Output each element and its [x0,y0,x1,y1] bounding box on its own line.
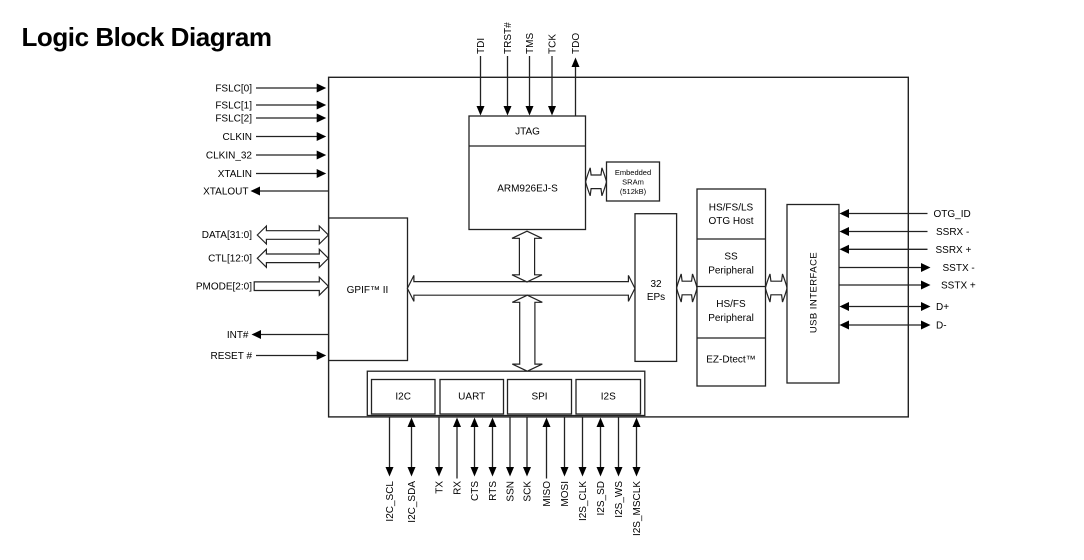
svg-text:I2S_WS: I2S_WS [614,481,625,518]
svg-text:HS/FS: HS/FS [716,299,746,310]
bus arrow GPIF to 32 EPs (horizontal) [407,275,635,301]
svg-text:I2S: I2S [601,392,616,403]
svg-text:Logic Block Diagram: Logic Block Diagram [22,22,272,52]
pin RESET # (left input) [211,351,327,362]
bus arrow USB blocks to USB interface [766,274,788,302]
bus arrow central bus to serial peripherals (vertical) [512,295,542,371]
svg-text:(512kB): (512kB) [620,187,647,196]
svg-text:XTALOUT: XTALOUT [203,187,248,198]
svg-text:SSTX -: SSTX - [943,263,975,274]
svg-text:DATA[31:0]: DATA[31:0] [202,230,252,241]
svg-text:FSLC[0]: FSLC[0] [215,84,252,95]
pin D- (right) [840,321,947,332]
pin I2C_SCL (bottom) [385,417,396,522]
svg-text:FSLC[2]: FSLC[2] [215,114,252,125]
svg-text:JTAG: JTAG [515,127,540,138]
svg-text:RTS: RTS [488,481,499,501]
block serial peripherals container [367,371,645,415]
svg-text:SSN: SSN [506,481,517,502]
pin TDI (top) [476,38,487,116]
pin TX (bottom) [435,417,446,494]
bus arrow ARM to SRAM [586,168,607,196]
svg-text:OTG Host: OTG Host [708,216,753,227]
block Embedded SRAM (512kB) [607,162,660,201]
svg-text:D+: D+ [936,302,949,313]
bus DATA[31:0] (bidirectional) [202,226,329,244]
block 32 EPs [635,214,677,362]
svg-text:SSTX +: SSTX + [941,281,976,292]
pin MISO (bottom) [542,418,553,507]
svg-text:XTALIN: XTALIN [218,169,252,180]
svg-text:D-: D- [936,321,947,332]
svg-text:RX: RX [453,481,464,495]
svg-text:I2C: I2C [395,392,411,403]
svg-text:CLKIN_32: CLKIN_32 [206,151,253,162]
svg-text:SSRX +: SSRX + [936,245,972,256]
pin CLKIN_32 (left input) [206,151,326,162]
svg-text:EZ-Dtect™: EZ-Dtect™ [706,355,755,366]
svg-text:CTS: CTS [470,481,481,501]
pin SSTX + (right) [839,281,976,292]
pin INT# (left output) [227,330,329,341]
pin FSLC[2] (left input) [215,114,326,125]
svg-text:FSLC[1]: FSLC[1] [215,101,252,112]
svg-text:RESET #: RESET # [211,351,253,362]
svg-text:HS/FS/LS: HS/FS/LS [709,203,754,214]
svg-text:UART: UART [458,392,485,403]
svg-text:TDI: TDI [476,38,487,54]
svg-text:I2C_SCL: I2C_SCL [385,481,396,522]
svg-text:SS: SS [724,252,738,263]
pin SSRX + (right) [840,245,972,256]
pin I2S_WS (bottom) [614,417,625,518]
svg-text:SRAm: SRAm [622,178,644,187]
pin I2S_SD (bottom) [596,418,607,516]
block USB function stack (OTG Host / SS Peripheral / HS-FS Peripheral / EZ-Dtect) [697,189,766,386]
svg-text:TMS: TMS [525,33,536,54]
svg-text:32: 32 [650,279,662,290]
svg-text:MISO: MISO [542,481,553,507]
pin SSRX - (right) [840,227,970,238]
svg-text:Peripheral: Peripheral [708,313,754,324]
pin I2S_MSCLK (bottom) [632,418,643,537]
svg-text:TX: TX [435,481,446,494]
svg-text:CLKIN: CLKIN [223,132,252,143]
svg-text:SPI: SPI [531,392,547,403]
svg-text:CTL[12:0]: CTL[12:0] [208,254,252,265]
block SPI [508,380,572,415]
svg-text:ARM926EJ-S: ARM926EJ-S [497,184,558,195]
bus arrow ARM to central bus (vertical) [512,231,542,282]
block USB INTERFACE [787,205,839,384]
pin RX (bottom) [453,418,464,495]
block GPIF II [329,218,408,361]
svg-text:TRST#: TRST# [503,22,514,54]
pin TMS (top) [525,33,536,116]
svg-text:USB INTERFACE: USB INTERFACE [809,252,820,333]
svg-text:Peripheral: Peripheral [708,266,754,277]
pin D+ (right) [840,302,950,313]
pin TRST# (top) [503,22,514,116]
svg-text:SCK: SCK [523,481,534,502]
svg-text:Embedded: Embedded [615,168,651,177]
block JTAG / ARM926EJ-S [469,116,586,230]
block I2S [576,380,641,415]
pin SSTX - (right) [839,263,975,274]
svg-text:GPIF™ II: GPIF™ II [347,285,389,296]
svg-text:I2C_SDA: I2C_SDA [407,481,418,523]
svg-text:INT#: INT# [227,330,249,341]
pin CTS (bottom) [470,418,481,502]
pin XTALOUT (left output) [203,187,328,198]
pin TCK (top) [548,34,559,116]
svg-text:I2S_CLK: I2S_CLK [578,481,589,521]
pin SCK (bottom) [523,417,534,502]
chip outline rectangle [329,77,909,417]
pin I2C_SDA (bottom) [407,418,418,523]
bus CTL[12:0] (bidirectional) [208,249,328,267]
pin XTALIN (left input) [218,169,326,180]
svg-text:OTG_ID: OTG_ID [934,209,971,220]
pin I2S_CLK (bottom) [578,417,589,521]
block I2C [372,380,436,415]
pin RTS (bottom) [488,418,499,501]
pin FSLC[0] (left input) [215,84,326,95]
pin FSLC[1] (left input) [215,101,326,112]
svg-text:PMODE[2:0]: PMODE[2:0] [196,282,252,293]
pin TDO (top) [571,33,582,116]
svg-text:EPs: EPs [647,292,665,303]
svg-text:I2S_SD: I2S_SD [596,481,607,515]
bus PMODE[2:0] (input) [196,277,329,295]
pin OTG_ID (right) [840,209,971,220]
svg-text:TCK: TCK [548,34,559,54]
pin CLKIN (left input) [223,132,327,143]
svg-text:I2S_MSCLK: I2S_MSCLK [632,481,643,536]
pin MOSI (bottom) [560,417,571,507]
bus arrow 32 EPs to USB blocks [677,274,697,302]
svg-text:SSRX -: SSRX - [936,227,969,238]
svg-text:TDO: TDO [571,33,582,54]
pin SSN (bottom) [506,417,517,502]
svg-text:MOSI: MOSI [560,481,571,507]
block UART [440,380,504,415]
